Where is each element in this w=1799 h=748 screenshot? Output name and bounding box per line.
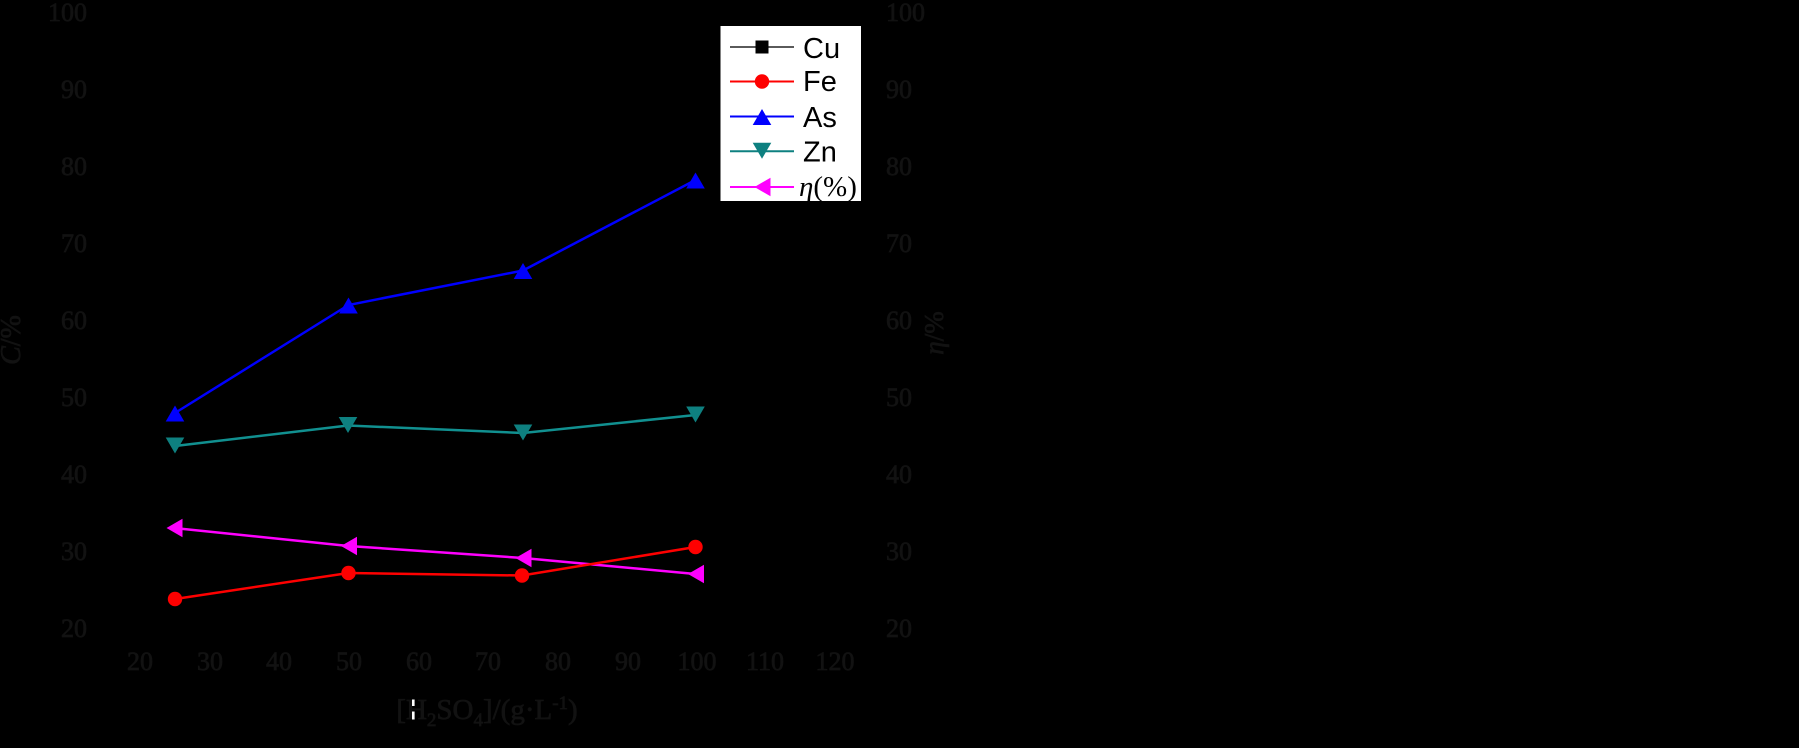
svg-text:70: 70: [61, 229, 87, 258]
svg-text:120: 120: [816, 647, 855, 676]
svg-text:Cu: Cu: [803, 33, 840, 65]
svg-text:80: 80: [61, 152, 87, 181]
svg-text:30: 30: [197, 647, 223, 676]
svg-text:50: 50: [886, 383, 912, 412]
svg-text:40: 40: [61, 460, 87, 489]
svg-text:50: 50: [336, 647, 362, 676]
svg-text:Fe: Fe: [803, 66, 837, 98]
svg-text:100: 100: [678, 647, 717, 676]
svg-text:Zn: Zn: [803, 137, 837, 169]
svg-text:50: 50: [61, 383, 87, 412]
svg-text:As: As: [803, 102, 837, 134]
svg-text:60: 60: [406, 647, 432, 676]
svg-text:C/%: C/%: [0, 315, 27, 365]
svg-text:100: 100: [48, 0, 87, 27]
svg-text:90: 90: [615, 647, 641, 676]
svg-text:90: 90: [886, 75, 912, 104]
svg-text:40: 40: [266, 647, 292, 676]
svg-text:110: 110: [746, 647, 784, 676]
svg-text:30: 30: [886, 537, 912, 566]
svg-text:20: 20: [886, 614, 912, 643]
svg-text:η/%: η/%: [919, 311, 949, 354]
svg-text:70: 70: [886, 229, 912, 258]
svg-text:80: 80: [545, 647, 571, 676]
svg-text:[H2SO4]/(g·L-1): [H2SO4]/(g·L-1): [396, 693, 577, 731]
svg-text:40: 40: [886, 460, 912, 489]
svg-text:100: 100: [886, 0, 925, 27]
svg-text:20: 20: [61, 614, 87, 643]
svg-text:90: 90: [61, 75, 87, 104]
svg-text:60: 60: [61, 306, 87, 335]
svg-text:80: 80: [886, 152, 912, 181]
svg-text:20: 20: [127, 647, 153, 676]
svg-text:η(%): η(%): [799, 171, 857, 203]
svg-text:60: 60: [886, 306, 912, 335]
svg-text:30: 30: [61, 537, 87, 566]
svg-text:70: 70: [475, 647, 501, 676]
